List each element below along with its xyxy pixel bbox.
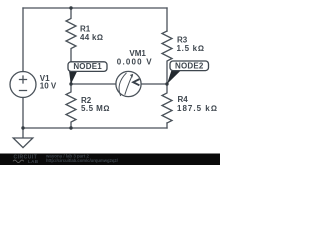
- wire middle right: [141, 83, 167, 85]
- wire middle left: [71, 83, 116, 85]
- svg-text:0.000 V: 0.000 V: [117, 57, 153, 66]
- wire bottom rail: [23, 127, 167, 129]
- svg-text:R4: R4: [178, 95, 189, 104]
- label R3 value: [177, 36, 205, 53]
- resistor R4: [162, 84, 172, 123]
- svg-text:5.5 MΩ: 5.5 MΩ: [81, 104, 110, 113]
- node junction dots: [21, 6, 168, 129]
- svg-text:LAB: LAB: [28, 159, 39, 164]
- voltmeter VM1 dial: [119, 73, 133, 96]
- voltmeter VM1: [116, 71, 141, 96]
- voltmeter VM1 arrow glyph: [133, 79, 139, 85]
- wire left rail lower: [22, 98, 24, 129]
- svg-text:1.5 kΩ: 1.5 kΩ: [177, 44, 205, 53]
- svg-text:187.5 kΩ: 187.5 kΩ: [177, 104, 218, 113]
- ground: [13, 128, 33, 148]
- voltage source V1: [10, 72, 36, 98]
- wire right rail bottom lead: [166, 123, 168, 128]
- resistor R1: [66, 8, 76, 84]
- wire top rail: [23, 7, 167, 9]
- svg-text:10 V: 10 V: [40, 82, 57, 91]
- resistor R2: [66, 84, 76, 128]
- footer logo CIRCUIT LAB: [14, 155, 39, 165]
- label VM1 value: [117, 49, 153, 66]
- wire left rail upper: [22, 8, 24, 72]
- node NODE2 flag: [167, 61, 209, 84]
- node NODE1 flag: [68, 62, 107, 85]
- wire right rail top lead: [166, 8, 168, 31]
- footer bar: [0, 154, 220, 166]
- label R1 value: [80, 25, 103, 42]
- svg-text:http://circuitlab.com/c/urqumw: http://circuitlab.com/c/urqumwg2q2/: [46, 158, 119, 163]
- voltmeter VM1 needle arrowhead: [130, 74, 133, 78]
- svg-text:NODE1: NODE1: [73, 62, 102, 71]
- label R4 value: [177, 95, 218, 113]
- resistor R3: [162, 31, 172, 84]
- label V1 value: [40, 74, 57, 91]
- footer logo wave: [13, 160, 24, 163]
- svg-text:NODE2: NODE2: [175, 62, 204, 71]
- label R2 value: [81, 96, 110, 113]
- svg-text:44 kΩ: 44 kΩ: [80, 33, 103, 42]
